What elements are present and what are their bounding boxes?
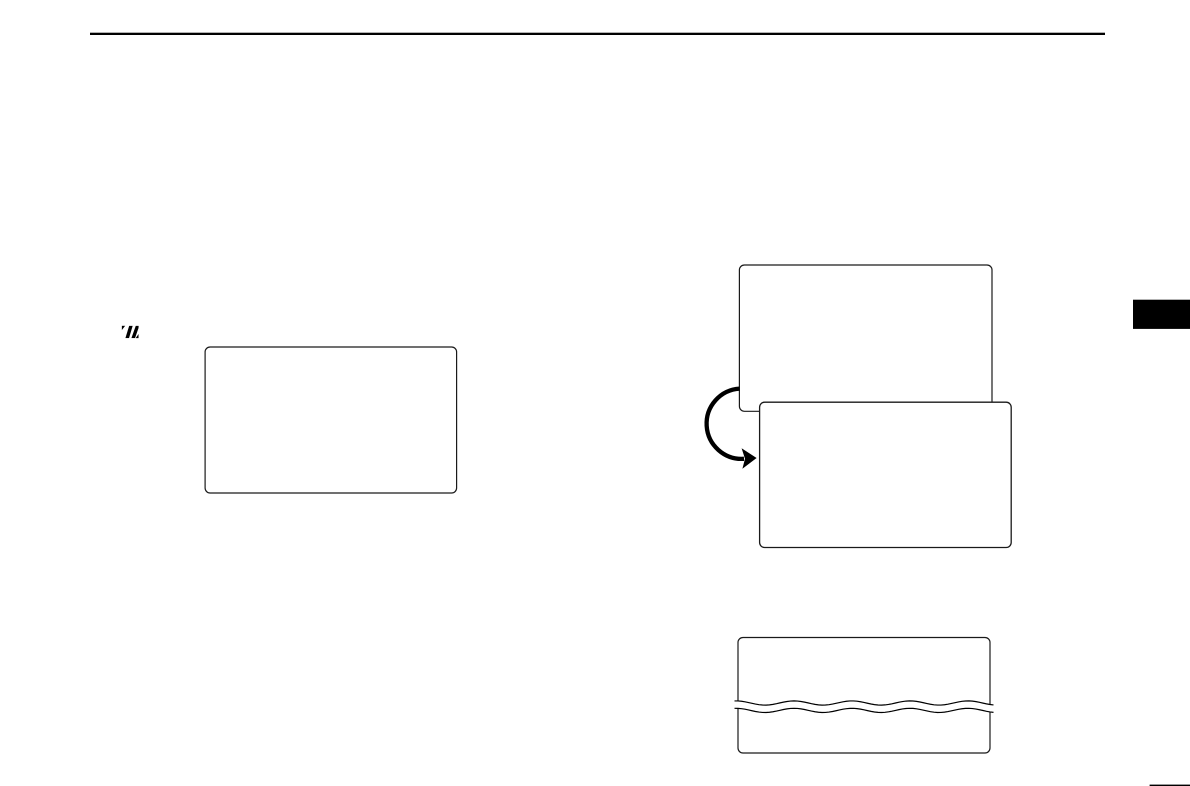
rotate arrow head	[742, 448, 757, 469]
rotate arrow arc	[707, 389, 744, 459]
section tab (black)	[1133, 300, 1190, 329]
left display frame	[205, 347, 457, 493]
right bottom display frame (overlapping, white fill)	[760, 402, 1012, 547]
torn edge top wave	[735, 701, 994, 705]
top rule	[90, 33, 1105, 35]
hatched note icon	[122, 326, 140, 339]
wavy (torn) display frame	[738, 638, 990, 754]
torn gap white band	[735, 701, 994, 713]
footer rule fragment	[1150, 785, 1190, 786]
right top display frame	[739, 265, 992, 411]
torn edge bottom wave	[735, 708, 994, 712]
